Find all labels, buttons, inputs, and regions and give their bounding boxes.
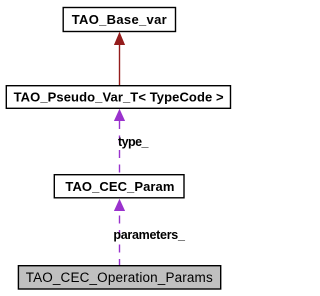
class box TAO_Base_var: [63, 8, 175, 32]
edge label parameters_: [113, 228, 186, 242]
class box TAO_CEC_Operation_Params (current class, grey): [18, 266, 220, 289]
svg-text:TAO_CEC_Operation_Params: TAO_CEC_Operation_Params: [26, 270, 213, 285]
svg-text:TAO_Pseudo_Var_T< TypeCode >: TAO_Pseudo_Var_T< TypeCode >: [14, 89, 224, 104]
edge label type_: [118, 135, 150, 149]
svg-text:type_: type_: [118, 135, 150, 149]
svg-text:TAO_Base_var: TAO_Base_var: [72, 12, 167, 27]
svg-text:TAO_CEC_Param: TAO_CEC_Param: [65, 179, 174, 194]
inheritance arrow (solid) from TAO_Pseudo_Var_T to TAO_Base_var: [114, 32, 125, 85]
usage arrow (dashed) from TAO_CEC_Param to TAO_Pseudo_Var_T: [114, 109, 125, 174]
class box TAO_Pseudo_Var_T< TypeCode >: [6, 86, 230, 109]
class box TAO_CEC_Param: [54, 175, 184, 198]
usage arrow (dashed) from TAO_CEC_Operation_Params to TAO_CEC_Param: [114, 199, 125, 265]
svg-text:parameters_: parameters_: [113, 228, 186, 242]
